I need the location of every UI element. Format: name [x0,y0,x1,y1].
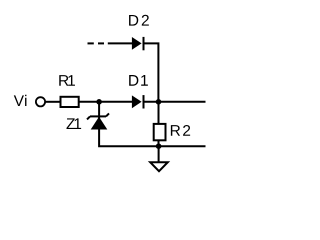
diode D2 [129,15,149,51]
node junction A [96,99,102,105]
node junction B [156,99,162,105]
ground [150,146,168,171]
wire [45,101,60,103]
node junction C [156,143,162,149]
terminal Vi [36,97,45,106]
node Vi label [14,95,27,106]
wire [144,43,159,101]
wire [80,101,133,103]
diode D1 [129,75,148,108]
wire [144,101,206,103]
wire dashed input to D2 [88,42,133,44]
zener diode Z1 [66,113,109,129]
resistor R2 [154,102,190,146]
resistor R1 [59,75,78,107]
wire [99,102,205,146]
